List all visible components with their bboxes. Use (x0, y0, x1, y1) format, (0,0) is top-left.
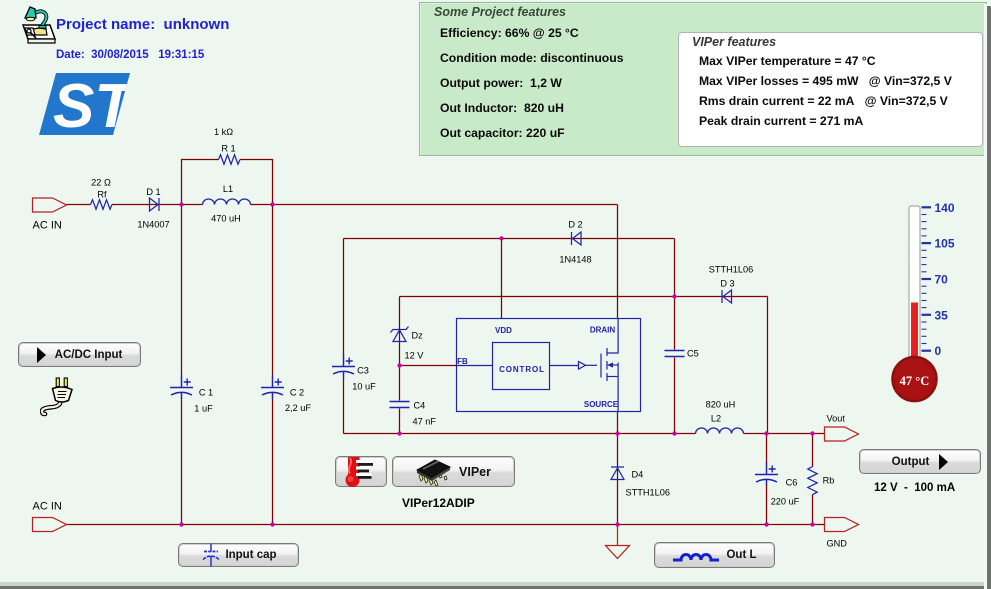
wire: C5 vertical (674, 297, 676, 434)
svg-text:STTH1L06: STTH1L06 (709, 265, 753, 275)
diode D1 1N4007 (150, 198, 160, 211)
VIPer features panel (678, 32, 983, 147)
capacitor C4 (390, 402, 410, 408)
svg-text:1 kΩ: 1 kΩ (214, 127, 233, 137)
wire: C2 branch vertical (272, 205, 274, 525)
node junction 766,524 (764, 522, 768, 526)
thermometer ticks (922, 207, 932, 350)
wire: ground rail bottom (67, 524, 825, 526)
svg-text:C4: C4 (414, 401, 426, 411)
svg-text:DRAIN: DRAIN (590, 326, 616, 335)
Max VIPer losses (699, 74, 952, 88)
thermometer button icon (346, 457, 374, 487)
Output button (859, 449, 981, 474)
Rms drain current (699, 94, 948, 108)
diode D2 1N4148 (572, 232, 582, 245)
out L button icon (673, 555, 719, 561)
svg-text:820 uH: 820 uH (706, 400, 736, 410)
node junction 272,524 (270, 522, 274, 526)
resistor R1 (219, 155, 241, 164)
svg-text:L1: L1 (223, 184, 233, 194)
svg-text:SOURCE: SOURCE (584, 400, 619, 409)
svg-text:D 2: D 2 (568, 220, 582, 230)
svg-text:105: 105 (935, 237, 955, 251)
svg-text:2,2 uF: 2,2 uF (285, 403, 311, 413)
svg-text:470 uH: 470 uH (211, 214, 241, 224)
svg-text:1N4148: 1N4148 (559, 255, 591, 265)
wire: C3 branch vertical (343, 239, 345, 434)
svg-text:FB: FB (457, 357, 468, 366)
svg-text:CONTROL: CONTROL (499, 365, 545, 374)
capacitor C2 (261, 376, 284, 400)
svg-text:1 uF: 1 uF (194, 404, 213, 414)
svg-text:70: 70 (935, 273, 949, 287)
panel title (431, 5, 569, 19)
wire: FB wire (400, 365, 457, 367)
svg-text:VDD: VDD (495, 326, 512, 335)
capacitor C5 (665, 351, 685, 357)
project icon page with magnifier (25, 28, 35, 35)
svg-text:Dz: Dz (412, 331, 424, 341)
zener diode Dz (391, 327, 409, 342)
window bottom border (0, 582, 991, 586)
power plug icon (40, 376, 76, 418)
svg-text:D 3: D 3 (720, 279, 734, 289)
Efficiency line (440, 26, 579, 40)
wire: Rb vertical (812, 434, 814, 525)
wire: source/output line (344, 433, 825, 435)
svg-text:C5: C5 (687, 349, 699, 359)
Some Project features panel (419, 2, 987, 156)
wire: ground stub (617, 525, 619, 546)
Date text (56, 49, 204, 61)
capacitor C1 (170, 376, 193, 400)
svg-text:140: 140 (935, 201, 955, 215)
svg-text:D 1: D 1 (146, 187, 160, 197)
node junction 617,524 (615, 522, 619, 526)
project icon folder (33, 28, 47, 35)
wire: source pin / D4 vertical (617, 412, 619, 525)
connector GND (825, 518, 859, 532)
svg-text:C 2: C 2 (290, 388, 304, 398)
project icon lamp arm (35, 11, 46, 27)
thermometer gauge (893, 201, 955, 401)
connector AC IN bottom (33, 518, 67, 532)
svg-text:AC IN: AC IN (33, 220, 62, 232)
wire: D2 line (344, 238, 675, 240)
svg-text:12 V: 12 V (405, 351, 425, 361)
VIPer features title (689, 35, 779, 49)
Project name text (56, 16, 229, 33)
svg-text:0: 0 (935, 344, 942, 358)
connector Vout (825, 427, 859, 441)
svg-text:C3: C3 (357, 366, 369, 376)
wire: C1 branch vertical (181, 205, 183, 525)
inductor L2 (696, 428, 744, 434)
svg-text:STTH1L06: STTH1L06 (626, 488, 670, 498)
resistor Rb (808, 467, 817, 495)
wire: drain vertical (617, 205, 619, 319)
svg-text:220 uF: 220 uF (771, 497, 800, 507)
wire: VDD pin vertical (501, 239, 503, 319)
Peak drain current (699, 114, 863, 128)
window right border (984, 4, 987, 589)
node junction 812,524 (810, 522, 814, 526)
svg-text:47 °C: 47 °C (900, 374, 930, 388)
node junction 399,365 (397, 363, 401, 367)
wire: D3 right vertical (767, 297, 769, 434)
diode D3 STTH1L06 (722, 290, 732, 303)
project icon (desk lamp) (20, 6, 58, 46)
node junction 812,433 (810, 431, 814, 435)
svg-text:47 nF: 47 nF (413, 417, 437, 427)
Input cap button (178, 543, 299, 567)
chip icon pins (419, 470, 447, 486)
op-amp U1 VIPer chip block (457, 319, 641, 412)
svg-text:D4: D4 (632, 470, 644, 480)
Out L button (654, 542, 775, 568)
Out Inductor line (440, 101, 564, 115)
node junction 181,204 (179, 202, 183, 206)
node junction 766,433 (764, 431, 768, 435)
wire: R1 loop (182, 160, 273, 205)
VIPer button (392, 456, 515, 487)
connector AC IN top (33, 198, 67, 212)
node junction 399,433 (397, 431, 401, 435)
svg-text:Rb: Rb (823, 476, 835, 486)
Out capacitor line (440, 126, 565, 140)
svg-text:L2: L2 (711, 414, 721, 424)
inductor L1 (203, 199, 251, 204)
ST logo (36, 71, 133, 137)
node junction 674,296 (672, 294, 676, 298)
ground symbol (606, 546, 630, 559)
Condition mode line (440, 51, 623, 65)
wire: D2 right vertical (674, 239, 676, 297)
svg-text:C6: C6 (786, 478, 798, 488)
svg-text:22 Ω: 22 Ω (91, 178, 111, 188)
node junction 674,433 (672, 431, 676, 435)
Max VIPer temperature (699, 54, 876, 68)
svg-text:R 1: R 1 (221, 144, 235, 154)
resistor Rf (91, 200, 113, 209)
wire: C6 vertical (766, 434, 768, 525)
svg-text:35: 35 (935, 308, 949, 322)
AC/DC Input button (18, 342, 141, 367)
input cap button icon (203, 544, 219, 567)
VIPer12ADIP label (402, 496, 475, 510)
ST logo parallelogram (39, 73, 130, 135)
project icon lamp base (39, 26, 46, 29)
svg-text:C 1: C 1 (199, 388, 213, 398)
svg-text:10 uF: 10 uF (352, 382, 376, 392)
svg-text:Rf: Rf (97, 190, 107, 200)
svg-text:1N4007: 1N4007 (137, 220, 169, 230)
wire: Dz C4 vertical (399, 297, 401, 434)
svg-text:GND: GND (827, 539, 848, 549)
wire: main AC line top (67, 204, 618, 206)
svg-text:AC IN: AC IN (33, 501, 62, 513)
capacitor C3 (332, 355, 355, 379)
thermometer small button (335, 456, 387, 487)
output rating label (874, 482, 955, 494)
diode D4 STTH1L06 (611, 467, 624, 480)
node junction 181,524 (179, 522, 183, 526)
ST logo letters (53, 72, 137, 141)
capacitor C6 (755, 463, 778, 487)
svg-text:Vout: Vout (827, 414, 846, 424)
node junction 617,433 (615, 431, 619, 435)
wire: Dz/D3 line (400, 296, 768, 298)
chip icon body (417, 460, 450, 478)
node junction 272,204 (270, 202, 274, 206)
node junction 501,238 (499, 236, 503, 240)
project icon drawing board (23, 25, 55, 39)
project icon lamp head (25, 7, 36, 18)
thermometer button icon (335, 456, 387, 487)
Output power line (440, 76, 562, 90)
